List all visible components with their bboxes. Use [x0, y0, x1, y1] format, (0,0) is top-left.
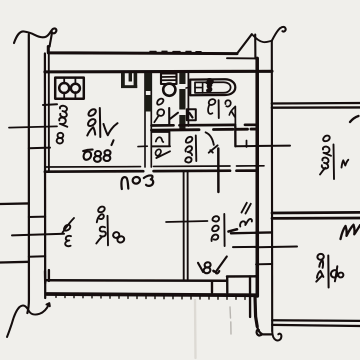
connector y264 [256, 263, 272, 265]
toilet cistern [161, 74, 177, 85]
kitchen/WC wall thin lines [145, 73, 151, 168]
label 5.04 under kitchen wall [121, 175, 153, 189]
room divider wall x184/x188 [184, 171, 188, 279]
wing room2 label vertical [316, 253, 344, 288]
big room dimension text 15.0 [96, 207, 108, 246]
bathroom left wall line [187, 72, 189, 126]
wing middle zigzag mark [341, 225, 360, 239]
closet left ticks [138, 145, 147, 147]
kitchen door leaf [155, 149, 161, 155]
interior wall stub x218 [217, 149, 220, 193]
left exterior wall inner line [44, 54, 47, 299]
washbasin box [187, 109, 196, 120]
corridor top wall upper line [152, 123, 258, 126]
bottom exterior wall bottom line [47, 294, 257, 295]
wing top double wall [272, 103, 360, 108]
wall dimension 3.6 [63, 218, 75, 246]
wing bottom double wall [272, 320, 360, 326]
dimension line y235 with text 3.6 [12, 234, 64, 236]
tick on wall left of tub [186, 86, 190, 89]
connector y233 [231, 231, 272, 234]
left exterior wall outer line [27, 35, 29, 314]
corridor door swing [206, 132, 214, 144]
entrance protrusion [255, 297, 257, 327]
bathroom label [208, 99, 215, 114]
bathtub outer [190, 79, 235, 95]
bathtub inner [195, 82, 231, 93]
dimension line y221 [166, 221, 208, 222]
ventilation duct symbol [121, 73, 137, 88]
bottom-left squiggle arrow [7, 303, 50, 337]
connector/tick y247 [233, 245, 297, 248]
top wall second line right [227, 57, 256, 59]
kitchen bottom text (rotated 5.88) [83, 140, 113, 162]
bottom wall stitch ticks [56, 294, 245, 299]
closet squiggle [156, 137, 164, 142]
left wall crossbar y256 [29, 255, 45, 258]
kitchen area text 8.23 vertical [57, 106, 68, 144]
kitchen bottom wall upper line [45, 166, 264, 167]
wing middle double wall [272, 212, 360, 218]
left dimension line y204 [0, 202, 29, 205]
right exterior wall of main block [255, 58, 259, 296]
wall break notch top right [237, 34, 255, 58]
kitchen center number marks [87, 108, 117, 137]
WC/bath wall black bar [179, 73, 185, 131]
wing room1 label 13.20 vertical [320, 136, 348, 179]
wing wall top curl [272, 27, 286, 41]
wing wall bottom hook [272, 331, 281, 340]
left dimension line y127 [9, 126, 57, 127]
nook wall x235 [234, 126, 236, 146]
inner line of top wall band [45, 70, 272, 74]
corridor label glyphs [185, 136, 196, 163]
left dimension line y262 [0, 261, 29, 264]
big room number 8 [112, 231, 125, 243]
wing left wall [271, 41, 274, 331]
bathtub headrest divider [195, 82, 203, 93]
left wall crossbar y105 [43, 103, 57, 106]
kitchen left inner line [48, 54, 50, 172]
wall line y146 to wing [235, 145, 290, 148]
nook stub x246 [246, 141, 248, 148]
bottom wall verticals [45, 270, 250, 317]
bathtub faucet blob [208, 80, 212, 91]
entrance label 18.7 [198, 257, 227, 274]
top wall tick bumps [150, 50, 201, 52]
left wall crossbar y217 [29, 216, 45, 218]
top-left wall break squiggle [14, 28, 56, 46]
middle room text 3.11 diagonal [240, 203, 252, 227]
kitchen stove symbol [55, 78, 84, 99]
toilet bowl [163, 84, 175, 96]
right edge tick near wing top [350, 116, 359, 122]
faint fold line bottom center [230, 307, 231, 334]
left wall crossbar y148 [29, 147, 50, 150]
top exterior wall [48, 47, 237, 54]
hall closet box [152, 132, 171, 147]
bottom exterior wall top line [45, 276, 257, 281]
corridor top wall lower line [152, 129, 258, 130]
WC door leaf [168, 108, 170, 125]
kitchen/WC wall black fill [145, 73, 152, 91]
bathroom door leaf [234, 107, 236, 125]
middle room dimension 2.60 [212, 214, 237, 246]
break squiggle to wing [252, 34, 272, 42]
WC area label [157, 99, 163, 105]
kitchen bottom wall lower line [45, 171, 257, 172]
